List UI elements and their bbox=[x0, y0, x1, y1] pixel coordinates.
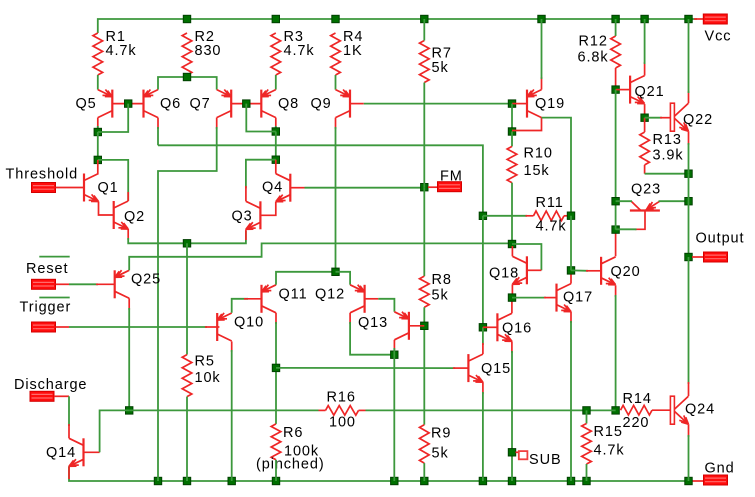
wire R9 bottom bbox=[423, 463, 425, 481]
transistor Q21 bbox=[630, 76, 645, 104]
wire Q2 emitter lead bbox=[127, 229, 129, 240]
wire Q19 collector loop bbox=[512, 118, 542, 131]
transistor Q1 bbox=[84, 174, 99, 202]
label Discharge bbox=[14, 377, 87, 393]
label R16 ref bbox=[327, 390, 356, 406]
wire Q19C right bbox=[542, 118, 572, 216]
overline Trigger bbox=[39, 297, 69, 299]
label R13 value bbox=[653, 148, 684, 164]
svg-text:Q17: Q17 bbox=[563, 290, 593, 306]
wire Q25E step bbox=[129, 243, 512, 270]
label R10 value bbox=[524, 163, 550, 179]
pad Output bbox=[704, 252, 728, 262]
junction Q23 base node bbox=[612, 226, 619, 233]
wire right loop bbox=[275, 132, 277, 160]
svg-text:4.7k: 4.7k bbox=[106, 43, 137, 59]
wire Q12 collector lead bbox=[349, 313, 351, 324]
wire discharge line 2 bbox=[366, 409, 616, 411]
wire Q12C loop bbox=[350, 322, 394, 355]
transistor Q7 bbox=[217, 90, 232, 118]
transistor Q11 bbox=[262, 285, 277, 313]
junction current mirror bbox=[332, 268, 339, 275]
junction top rail bbox=[421, 15, 428, 22]
wire Q16E down bbox=[511, 351, 513, 481]
junction left loop upper bbox=[94, 128, 101, 135]
wire Q22C up bbox=[688, 91, 690, 103]
transistor Q6 bbox=[144, 90, 159, 118]
wire Q11E up bbox=[276, 272, 336, 285]
svg-text:Q7: Q7 bbox=[190, 96, 211, 112]
label R12 value bbox=[578, 50, 609, 66]
transistor Q2 bbox=[114, 201, 129, 229]
svg-text:Q18: Q18 bbox=[489, 266, 519, 282]
label Q15 ref bbox=[481, 361, 511, 377]
label R11 value bbox=[536, 219, 567, 235]
wire Q24 emitter lead bbox=[688, 424, 690, 437]
resistor R12 bbox=[611, 36, 621, 68]
svg-text:R15: R15 bbox=[594, 424, 623, 440]
label R14 value bbox=[623, 415, 650, 431]
junction ground rail bbox=[479, 477, 486, 484]
wire Q15E down bbox=[482, 392, 484, 481]
label R3 ref bbox=[284, 29, 304, 45]
svg-text:R16: R16 bbox=[327, 390, 356, 406]
wire Q4E-Q3B bbox=[260, 202, 276, 216]
svg-text:Reset: Reset bbox=[26, 261, 68, 277]
label Q25 ref bbox=[131, 272, 161, 288]
label R9 value bbox=[432, 446, 449, 462]
resistor R15 bbox=[582, 424, 592, 465]
wire FM pad lead bbox=[428, 186, 438, 188]
svg-text:Q3: Q3 bbox=[232, 209, 253, 225]
wire Q15 base line bbox=[276, 367, 455, 369]
label Q9 ref bbox=[311, 96, 332, 112]
junction flipflop collectors bbox=[391, 351, 398, 358]
wire Q15 collector bbox=[482, 327, 484, 345]
wire output column bbox=[688, 174, 690, 257]
resistor R7 bbox=[420, 41, 430, 83]
transistor Q16 bbox=[497, 313, 512, 341]
svg-text:R8: R8 bbox=[432, 272, 452, 288]
svg-text:Q4: Q4 bbox=[262, 180, 283, 196]
label Vcc bbox=[705, 29, 732, 45]
label Q1 ref bbox=[98, 180, 119, 196]
label Q21 ref bbox=[635, 84, 665, 100]
wire Q18 base lead bbox=[527, 269, 542, 271]
junction ground rail bbox=[421, 477, 428, 484]
transistor Q13 bbox=[394, 312, 409, 340]
transistor Q5 bbox=[98, 90, 113, 118]
svg-text:Q13: Q13 bbox=[358, 315, 388, 331]
junction discharge-Q25 bbox=[126, 407, 133, 414]
svg-text:Vcc: Vcc bbox=[705, 29, 732, 45]
wire Q5 collector lead bbox=[97, 118, 99, 128]
wire R16 right lead bbox=[359, 409, 366, 411]
label R4 ref bbox=[343, 29, 363, 45]
wire Q23 base wire bbox=[616, 228, 637, 230]
label Q7 ref bbox=[190, 96, 211, 112]
junction ground rail bbox=[228, 477, 235, 484]
junction Q19 base bbox=[508, 100, 515, 107]
resistor R1 bbox=[93, 33, 103, 75]
wire Q19 base drop bbox=[511, 104, 513, 132]
resistor R5 bbox=[182, 355, 192, 397]
wire R4-Q9 bbox=[335, 75, 337, 90]
junction Output bbox=[685, 253, 692, 260]
wire Q16 collector lead bbox=[511, 298, 513, 314]
junction Q20 base node bbox=[567, 267, 574, 274]
transistor Q8 bbox=[261, 90, 276, 118]
wire Q19E to rail bbox=[541, 19, 543, 79]
label R4 value bbox=[343, 43, 363, 59]
resistor R3 bbox=[271, 33, 281, 75]
wire x616 R12-Q23 bbox=[615, 90, 617, 230]
wire Q13 collector lead bbox=[393, 340, 395, 350]
wire Q14 base lead bbox=[83, 451, 100, 453]
wire Q19 emitter lead bbox=[541, 77, 543, 90]
wire Q13C down bbox=[393, 348, 395, 481]
transistor Q20 bbox=[601, 257, 616, 285]
svg-text:Q2: Q2 bbox=[124, 209, 145, 225]
label FM bbox=[440, 169, 463, 185]
wire Q4 base stub bbox=[290, 187, 305, 189]
label R1 ref bbox=[106, 29, 126, 45]
junction Q21 base bbox=[612, 86, 619, 93]
junction Q17 base node bbox=[508, 294, 515, 301]
svg-text:6.8k: 6.8k bbox=[578, 50, 609, 66]
svg-text:Q5: Q5 bbox=[76, 96, 97, 112]
wire Q21 collector lead bbox=[644, 62, 646, 76]
label R5 ref bbox=[195, 354, 215, 370]
junction top rail bbox=[332, 15, 339, 22]
label R16 value bbox=[329, 415, 356, 431]
wire Q11 collector lead bbox=[275, 313, 277, 324]
wire Q11 base lead bbox=[244, 298, 262, 300]
wire Q14 collector lead bbox=[68, 424, 70, 438]
label R15 value bbox=[594, 443, 625, 459]
label SUB bbox=[529, 452, 562, 468]
svg-text:5k: 5k bbox=[432, 60, 449, 76]
svg-text:Q14: Q14 bbox=[46, 445, 76, 461]
junction Q23 collector bbox=[612, 198, 619, 205]
svg-text:R5: R5 bbox=[195, 354, 215, 370]
junction Q5Q6 base bbox=[125, 100, 132, 107]
wire Q24E down bbox=[688, 435, 690, 481]
wire Q2 collector stub bbox=[127, 192, 129, 201]
wire J-Q12E bbox=[336, 272, 351, 285]
label Q14 ref bbox=[46, 445, 76, 461]
junction right loop upper bbox=[272, 128, 279, 135]
label R7 value bbox=[432, 60, 449, 76]
wire Q10 base lead bbox=[205, 326, 219, 328]
wire Q10 collector lead bbox=[231, 341, 233, 352]
svg-text:Q19: Q19 bbox=[535, 96, 565, 112]
svg-text:R14: R14 bbox=[623, 391, 652, 407]
wire R1-Q5 bbox=[97, 75, 99, 90]
wire R15 bottom bbox=[586, 464, 588, 481]
wire discharge line bbox=[129, 409, 318, 411]
junction top rail bbox=[538, 15, 545, 22]
label Q13 ref bbox=[358, 315, 388, 331]
label R11 ref bbox=[536, 195, 564, 211]
wire Q17 emitter lead bbox=[570, 312, 572, 323]
wire Q14 emitter lead bbox=[68, 466, 70, 479]
label R15 ref bbox=[594, 424, 623, 440]
label R9 ref bbox=[431, 426, 451, 442]
wire Q1E-Q2B bbox=[99, 202, 115, 216]
resistor R16 bbox=[326, 406, 359, 416]
junction Q15 base tap bbox=[272, 364, 279, 371]
wire Q6Q7 emitters bbox=[158, 77, 217, 90]
resistor R11 bbox=[534, 211, 565, 221]
label R8 ref bbox=[432, 272, 452, 288]
wire R11 left wire bbox=[483, 215, 527, 217]
wire left loop bbox=[97, 132, 99, 160]
wire R12 top bbox=[615, 19, 617, 36]
wire R14-Q24 base bbox=[652, 409, 670, 411]
label R14 ref bbox=[623, 391, 652, 407]
transistor Q22 bbox=[670, 103, 688, 131]
svg-text:R6: R6 bbox=[283, 425, 303, 441]
junction top rail bbox=[641, 15, 648, 22]
resistor R2 bbox=[182, 33, 192, 75]
wire Discharge pad stub bbox=[54, 395, 69, 397]
svg-text:R11: R11 bbox=[536, 195, 564, 211]
label Q8 ref bbox=[278, 96, 299, 112]
wire Q21C to rail bbox=[644, 19, 646, 64]
pad Reset bbox=[32, 279, 56, 289]
junction R11 right bbox=[567, 212, 574, 219]
svg-text:SUB: SUB bbox=[529, 452, 562, 468]
label Gnd bbox=[705, 461, 735, 477]
wire Q12B-Q13E bbox=[378, 299, 394, 312]
wire Q18 collector lead bbox=[511, 246, 513, 256]
junction ground rail bbox=[583, 477, 590, 484]
wire comparator out long bbox=[158, 145, 483, 216]
label R10 ref bbox=[524, 146, 553, 162]
wire Q12 base stub bbox=[364, 298, 378, 300]
wire Q7 collector lead bbox=[216, 118, 218, 129]
wire Q9-Q19 base line bbox=[364, 103, 512, 105]
junction Q18 node bbox=[508, 240, 515, 247]
wire Gnd pad lead bbox=[689, 480, 704, 482]
svg-text:3.9k: 3.9k bbox=[653, 148, 684, 164]
label R2 value bbox=[195, 43, 222, 59]
wire R7-FM bbox=[423, 83, 425, 188]
wire Q25 collector lead bbox=[128, 298, 130, 310]
wire Q25C down bbox=[128, 308, 130, 410]
transistor Q23 bbox=[630, 201, 660, 229]
label Q6 ref bbox=[160, 96, 181, 112]
label Q11 ref bbox=[279, 286, 308, 302]
wire Trigger lead bbox=[69, 326, 207, 328]
svg-text:Q12: Q12 bbox=[315, 286, 345, 302]
wire Q8C to J1R bbox=[275, 126, 277, 132]
transistor Q14 bbox=[69, 438, 84, 466]
wire SUB lead bbox=[516, 451, 520, 453]
wire R5 column bbox=[186, 243, 188, 354]
junction Q23 emitter bbox=[685, 198, 692, 205]
wire emitter line left bbox=[187, 231, 246, 243]
transistor Q3 bbox=[246, 201, 261, 229]
wire Q2E corner bbox=[128, 238, 187, 243]
junction right loop lower bbox=[272, 156, 279, 163]
label R6 ref bbox=[283, 425, 303, 441]
wire Vcc rail bbox=[98, 19, 697, 33]
junction ground rail bbox=[391, 477, 398, 484]
svg-text:5k: 5k bbox=[432, 446, 449, 462]
wire R5 bottom bbox=[186, 397, 188, 481]
resistor R13 bbox=[640, 132, 650, 165]
junction Q16 base bbox=[479, 324, 486, 331]
label R1 value bbox=[106, 43, 137, 59]
wire Q15 base lead bbox=[453, 367, 469, 369]
transistor Q15 bbox=[468, 354, 483, 382]
junction Q13 base bbox=[421, 322, 428, 329]
svg-text:Discharge: Discharge bbox=[14, 377, 87, 393]
wire Q6 collector lead bbox=[157, 118, 159, 129]
svg-text:220: 220 bbox=[623, 415, 650, 431]
wire output down bbox=[688, 257, 690, 384]
wire J2R to Q3 collector bbox=[246, 160, 276, 189]
label R2 ref bbox=[195, 29, 215, 45]
junction Q22 emitter node bbox=[685, 170, 692, 177]
wire Q16 base lead bbox=[483, 326, 498, 328]
label Q16 ref bbox=[502, 321, 532, 337]
wire R16 left lead bbox=[319, 409, 326, 411]
label Q19 ref bbox=[535, 96, 565, 112]
wire R12 bottom lead bbox=[615, 68, 617, 90]
wire Q1 collector lead bbox=[97, 160, 99, 174]
wire Q18 base loop bbox=[512, 244, 541, 270]
wire Q7-Q8 bases bbox=[231, 103, 262, 105]
transistor Q12 bbox=[350, 285, 365, 313]
junction top rail bbox=[183, 15, 190, 22]
svg-text:4.7k: 4.7k bbox=[284, 43, 315, 59]
label Q18 ref bbox=[489, 266, 519, 282]
wire Q11C down bbox=[275, 322, 277, 424]
junction Q22 base node bbox=[641, 114, 648, 121]
wire R10 top lead bbox=[511, 132, 513, 147]
wire Q15 collector lead bbox=[482, 343, 484, 354]
pad Discharge bbox=[30, 391, 54, 401]
wire Q18 emitter lead bbox=[511, 284, 513, 297]
svg-text:10k: 10k bbox=[195, 370, 221, 386]
wire FM-R8 bbox=[423, 187, 425, 276]
wire Q22E to node bbox=[688, 143, 690, 174]
pad Gnd bbox=[704, 475, 728, 485]
junction ground rail bbox=[685, 477, 692, 484]
wire Vcc pad lead bbox=[694, 18, 703, 20]
resistor R6 bbox=[271, 424, 281, 460]
transistor Q10 bbox=[217, 313, 232, 341]
wire Q9 collector lead bbox=[335, 118, 337, 129]
overline Reset bbox=[39, 256, 69, 258]
wire Q16 emitter lead bbox=[511, 341, 513, 353]
wire Q5Q6 base drop bbox=[98, 104, 128, 132]
wire FM line bbox=[305, 186, 425, 188]
transistor Q18 bbox=[512, 256, 527, 284]
svg-text:Q21: Q21 bbox=[635, 84, 665, 100]
wire Q9C down bbox=[335, 127, 337, 272]
wire R3-Q8 bbox=[275, 75, 277, 90]
wire Threshold lead bbox=[56, 187, 85, 189]
label Q24 ref bbox=[685, 402, 715, 418]
wire Q25 base lead bbox=[96, 283, 115, 285]
label Reset bbox=[26, 261, 68, 277]
svg-text:Q11: Q11 bbox=[279, 286, 308, 302]
wire Q21 base lead bbox=[616, 89, 630, 91]
svg-text:Q16: Q16 bbox=[502, 321, 532, 337]
label Q17 ref bbox=[563, 290, 593, 306]
wire Q17 base wire bbox=[512, 297, 546, 299]
wire Q19 base lead bbox=[512, 103, 527, 105]
wire Q20 base lead bbox=[586, 270, 601, 272]
resistor R4 bbox=[331, 33, 341, 75]
wire Q17 collector lead bbox=[570, 270, 572, 283]
wire R13 bottom lead bbox=[644, 165, 646, 174]
label Threshold bbox=[6, 167, 79, 183]
svg-text:15k: 15k bbox=[524, 163, 550, 179]
transistor Q25 bbox=[115, 270, 130, 298]
wire ground rail bbox=[69, 466, 689, 481]
label Q22 ref bbox=[683, 112, 713, 128]
svg-text:Q22: Q22 bbox=[683, 112, 713, 128]
wire Q20 emitter lead bbox=[615, 285, 617, 297]
svg-text:1K: 1K bbox=[343, 43, 363, 59]
wire Q20E down bbox=[615, 295, 617, 410]
label Q4 ref bbox=[262, 180, 283, 196]
label R13 ref bbox=[653, 132, 682, 148]
label Q23 ref bbox=[631, 182, 661, 198]
junction top rail bbox=[272, 15, 279, 22]
svg-text:(pinched): (pinched) bbox=[256, 457, 325, 473]
junction R11 left bbox=[479, 212, 486, 219]
svg-text:Q1: Q1 bbox=[98, 180, 119, 196]
junction top rail bbox=[612, 15, 619, 22]
wire Q23E wire bbox=[659, 200, 689, 202]
wire Q23C wire bbox=[616, 200, 632, 202]
wire Q5C to J1 bbox=[97, 126, 99, 132]
label R6 note bbox=[256, 457, 325, 473]
wire R10 bottom bbox=[511, 183, 513, 244]
wire Discharge down bbox=[68, 396, 70, 426]
wire Output pad lead bbox=[692, 256, 704, 258]
svg-text:Q25: Q25 bbox=[131, 272, 161, 288]
svg-text:4.7k: 4.7k bbox=[536, 219, 567, 235]
wire Q8 collector lead bbox=[275, 118, 277, 128]
wire R11 right lead bbox=[564, 215, 571, 217]
wire R13 top lead bbox=[644, 118, 646, 132]
svg-text:Q8: Q8 bbox=[278, 96, 299, 112]
resistor R8 bbox=[420, 276, 430, 307]
junction R10 top bbox=[508, 128, 515, 135]
transistor Q19 bbox=[527, 90, 542, 118]
wire Q24 collector up bbox=[688, 382, 690, 396]
label R12 ref bbox=[579, 34, 608, 50]
transistor Q4 bbox=[276, 174, 291, 202]
wire Reset pad stub bbox=[56, 283, 70, 285]
junction Q7Q8 base bbox=[243, 100, 250, 107]
label R3 value bbox=[284, 43, 315, 59]
svg-text:R9: R9 bbox=[431, 426, 451, 442]
junction top rail bbox=[685, 15, 692, 22]
junction R2 emitters bbox=[183, 73, 190, 80]
wire Q10C down bbox=[231, 350, 233, 481]
label Q2 ref bbox=[124, 209, 145, 225]
wire Q17E down bbox=[570, 321, 572, 481]
pad FM bbox=[438, 182, 462, 192]
